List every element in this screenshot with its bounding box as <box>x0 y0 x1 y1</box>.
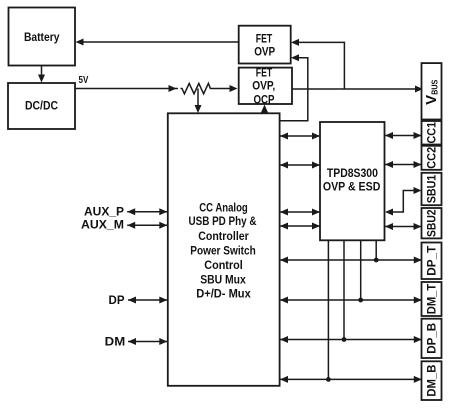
pin box CC1 <box>422 121 442 145</box>
wire FET OVP to Battery <box>76 39 239 46</box>
wire AUX_P <box>127 208 167 215</box>
wire 5V from DC/DC <box>75 85 238 92</box>
pin box DP_B <box>422 319 442 358</box>
svg-text:FET: FET <box>256 31 273 45</box>
wire CC1 controller to TPD <box>280 133 320 140</box>
wire TPD stub to DP_B <box>343 240 345 339</box>
pin box DP_T <box>422 243 442 280</box>
wire CC2 controller to TPD <box>280 162 320 169</box>
pin box DM_T <box>422 282 442 316</box>
block controller U1 <box>168 113 280 386</box>
pin box SBU1 <box>422 173 442 205</box>
svg-text:USB PD Phy &: USB PD Phy & <box>189 214 257 228</box>
resistor R1 <box>181 83 213 93</box>
block TPD8S300 <box>320 122 385 240</box>
block FET OVP OCP <box>239 66 292 107</box>
junction dot DM_B <box>326 377 331 382</box>
wire controller to FET OVP OCP bottom <box>261 105 268 114</box>
pin box DM_B <box>422 361 442 400</box>
wire TPD stub to DM_T <box>360 240 362 300</box>
wire FET OVP OCP output to VBUS <box>292 86 423 93</box>
svg-text:SBU1: SBU1 <box>425 174 439 203</box>
wire TPD to SBU1 pin elbow <box>385 187 422 216</box>
svg-text:OVP: OVP <box>254 45 275 59</box>
svg-text:DM: DM <box>105 334 126 348</box>
svg-text:DM_T: DM_T <box>425 283 439 314</box>
svg-text:AUX_M: AUX_M <box>81 217 124 231</box>
wire DP_T controller to pin <box>280 257 422 264</box>
svg-text:OVP,: OVP, <box>252 78 275 92</box>
wire DM_T controller to pin <box>280 297 422 304</box>
wire controller to FET OVP <box>280 54 308 121</box>
svg-text:DC/DC: DC/DC <box>25 99 58 113</box>
svg-text:DP: DP <box>109 293 125 307</box>
wire TPD to SBU2 pin <box>385 223 422 230</box>
wire battery to DC/DC <box>38 66 45 83</box>
wire DP_B controller to pin <box>280 336 422 343</box>
svg-text:CC1: CC1 <box>425 122 439 144</box>
svg-text:TPD8S300: TPD8S300 <box>327 166 378 180</box>
svg-text:SBU Mux: SBU Mux <box>200 272 246 286</box>
pin box CC2 <box>422 146 442 170</box>
wire SBU1 controller to TPD <box>280 209 320 216</box>
wire DP <box>128 297 167 304</box>
wire TPD to CC1 pin <box>385 132 422 139</box>
wire TPD stub to DP_T <box>375 240 377 260</box>
svg-text:Power Switch: Power Switch <box>190 244 256 258</box>
svg-text:OCP: OCP <box>254 92 275 106</box>
svg-text:OVP & ESD: OVP & ESD <box>323 179 381 193</box>
svg-text:DM_B: DM_B <box>425 364 439 396</box>
wire resistor branch down to controller <box>195 89 202 114</box>
wire DM <box>128 338 167 345</box>
junction dot DP_B <box>342 337 347 342</box>
svg-text:DP_B: DP_B <box>425 322 439 353</box>
wire TPD stub to DM_B <box>327 240 329 379</box>
svg-text:SBU2: SBU2 <box>425 209 439 237</box>
wire DM_B controller to pin <box>280 376 422 383</box>
svg-text:Controller: Controller <box>198 229 249 243</box>
wire AUX_M <box>127 222 167 229</box>
svg-text:Control: Control <box>204 258 243 272</box>
junction dot DP_T <box>374 258 379 263</box>
pin box VBUS <box>422 63 442 119</box>
pin box SBU2 <box>422 208 442 238</box>
block Battery <box>9 8 76 66</box>
svg-text:5V: 5V <box>79 75 89 86</box>
svg-text:CC Analog: CC Analog <box>199 200 248 214</box>
wire TPD to CC2 pin <box>385 161 422 168</box>
svg-text:DP_T: DP_T <box>425 245 439 276</box>
wire SBU2 controller to TPD <box>280 223 320 230</box>
svg-text:Battery: Battery <box>24 30 60 44</box>
svg-text:CC2: CC2 <box>425 147 439 169</box>
block DC/DC <box>8 83 75 129</box>
svg-text:D+/D- Mux: D+/D- Mux <box>196 287 251 301</box>
wire VBUS feedback to FET OVP <box>291 39 344 89</box>
junction dot DM_T <box>358 298 363 303</box>
svg-text:AUX_P: AUX_P <box>84 204 124 218</box>
block FET OVP <box>239 26 291 64</box>
